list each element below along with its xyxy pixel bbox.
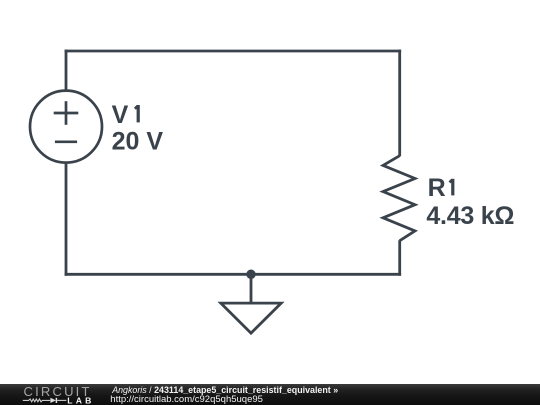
wire bottom rail bbox=[65, 273, 402, 276]
svg-text:LAB: LAB bbox=[67, 395, 94, 405]
CircuitLab logo bbox=[0, 384, 100, 405]
resistor R1 bbox=[383, 156, 415, 241]
svg-text:4.43 kΩ: 4.43 kΩ bbox=[426, 202, 514, 230]
wire left top stub bbox=[65, 50, 68, 91]
wire top rail bbox=[65, 50, 402, 53]
wire right top segment bbox=[398, 50, 401, 157]
credits text bbox=[0, 0, 1, 1]
wire left bottom stub bbox=[65, 163, 68, 276]
voltage source V1 bbox=[30, 91, 102, 163]
svg-text:V: V bbox=[112, 101, 129, 129]
label R1 bbox=[428, 174, 453, 202]
node junction dot bbox=[246, 270, 256, 280]
svg-text:R: R bbox=[428, 174, 446, 202]
label V1 bbox=[112, 101, 139, 129]
wire right bottom segment bbox=[398, 240, 401, 276]
svg-text:20 V: 20 V bbox=[112, 128, 164, 156]
ground bbox=[221, 274, 281, 333]
